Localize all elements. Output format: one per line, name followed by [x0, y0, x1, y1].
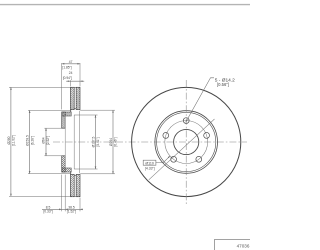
hat mounting flange lower section (hatched) [62, 156, 65, 172]
vent cylinder silhouette line Ø148 [73, 115, 75, 169]
diagonal centerline through bolt hole [149, 119, 215, 180]
vent vane wall (bottom) [74, 175, 76, 177]
section view: outboard friction plate (top half) [70, 87, 74, 109]
hat mounting flange upper section (hatched) [62, 112, 65, 128]
part number box bottom right [215, 239, 255, 250]
bolt hole 2 (Ø14.2) at 162 degrees [163, 133, 169, 139]
section view: inboard friction plate (bottom half) [76, 174, 80, 196]
bolt hole 3 (Ø14.2) at 234 degrees [171, 156, 177, 162]
svg-text:[1.85"]: [1.85"] [62, 65, 72, 69]
vertical centerline of front view [185, 80, 187, 204]
dimension Ø64 extension line top [44, 127, 61, 129]
neck line joining plate to web (bottom) [70, 172, 72, 174]
leader line for 5-Ø14.2 bolt hole callout [186, 78, 214, 122]
dimension 47 [1.85"] overall height: dim line [62, 63, 80, 65]
dimension Ø137.5 [5.41"] vent inner diameter: dim line [95, 115, 97, 169]
dimension 47 extension line left (from flange top corner) [61, 63, 63, 109]
svg-text:[6.28"]: [6.28"] [30, 136, 34, 146]
svg-text:[4.33"]: [4.33"] [145, 167, 155, 171]
svg-text:Ø280: Ø280 [7, 136, 11, 144]
svg-text:Ø164: Ø164 [109, 138, 113, 146]
plate outer corner chamfers [70, 87, 71, 88]
svg-text:[0.33"]: [0.33"] [43, 210, 53, 214]
section view: inboard friction plate (top half) [76, 87, 80, 109]
svg-text:[11.02"]: [11.02"] [12, 135, 16, 146]
svg-text:24: 24 [69, 71, 73, 75]
center bore upper edge [62, 127, 65, 129]
front view hat outer circle Ø159.5 [155, 111, 218, 174]
svg-text:[2.52"]: [2.52"] [46, 136, 50, 146]
vent vane wall (top) [74, 107, 76, 109]
extension line flange back face [64, 175, 66, 212]
dimension Ø64 extension line bottom [44, 155, 61, 157]
hat web slab bottom (hatched) [62, 168, 71, 172]
dimension 8.5 [0.33"] and 38.5 [1.52"]: shared dim line [42, 208, 83, 210]
dimension 24 [0.94"] disc thickness: dim line [66, 80, 84, 82]
front view center bore circle Ø64 [174, 129, 199, 154]
front view hat step circle Ø148 [157, 112, 216, 171]
section view: outboard friction plate (bottom half) [70, 174, 74, 196]
svg-text:[5.41"]: [5.41"] [96, 137, 100, 147]
hat web slab top (hatched) [62, 112, 71, 116]
svg-text:Ø110: Ø110 [145, 161, 154, 165]
svg-text:47036: 47036 [237, 243, 250, 248]
dimension Ø280 [11.02"] overall diameter: dim line [10, 87, 12, 196]
top border line of drawing sheet [0, 4, 250, 6]
dimension Ø159.5 [6.28"] hat diameter: dim line [29, 110, 31, 173]
front view bolt circle Ø110 [165, 121, 208, 164]
dimension Ø159.5 extension line bottom [28, 173, 70, 175]
front view outer diameter circle [132, 87, 241, 196]
bolt hole 1 (Ø14.2) at 90 degrees [183, 118, 189, 124]
svg-text:Ø159.5: Ø159.5 [26, 135, 30, 146]
extension line mounting face [61, 175, 63, 212]
vent cylinder silhouette line Ø137.5 [78, 111, 80, 173]
dimension 24 extension line left [69, 80, 71, 86]
neck line joining plate to web (top) [70, 110, 72, 112]
dimension Ø64 [2.52"] center bore: dim line [45, 128, 47, 156]
vent rim line across gap (top outer edge) [74, 87, 76, 89]
svg-text:Ø137.5: Ø137.5 [92, 136, 96, 147]
svg-text:47: 47 [69, 60, 73, 64]
dimension Ø137.5 extension line top [74, 114, 98, 116]
dimension Ø164 extension line bottom [80, 173, 115, 175]
extension line outboard friction face [79, 198, 81, 212]
dimension Ø280 extension line bottom [9, 195, 70, 197]
vent rim line across gap (bottom outer edge) [74, 196, 76, 198]
dimension Ø164 [6.46"] plate inner edge: dim line [112, 110, 114, 174]
svg-text:[1.52"]: [1.52"] [67, 210, 77, 214]
bolt hole 5 (Ø14.2) at 18 degrees [204, 133, 210, 139]
svg-text:[6.46"]: [6.46"] [114, 137, 118, 147]
svg-text:[0.94"]: [0.94"] [63, 76, 73, 80]
dimension Ø159.5 extension line top [28, 109, 70, 111]
horizontal centerline through both views [53, 141, 247, 143]
bolt hole 4 (Ø14.2) at 306 degrees [196, 156, 202, 162]
leader from PCD label to bolt circle [156, 156, 170, 163]
dimension Ø137.5 extension line bottom [74, 168, 98, 170]
boxed PCD label Ø110 [4.33"] [143, 160, 156, 165]
dimension Ø164 extension line top [80, 109, 115, 111]
dimension 47 extension line right [79, 63, 81, 86]
dimension Ø280 extension line top [9, 86, 70, 88]
svg-text:Ø64: Ø64 [41, 137, 45, 143]
flange back face silhouette [64, 116, 66, 168]
svg-text:[0.56"]: [0.56"] [217, 82, 229, 87]
center bore lower edge [62, 155, 65, 157]
